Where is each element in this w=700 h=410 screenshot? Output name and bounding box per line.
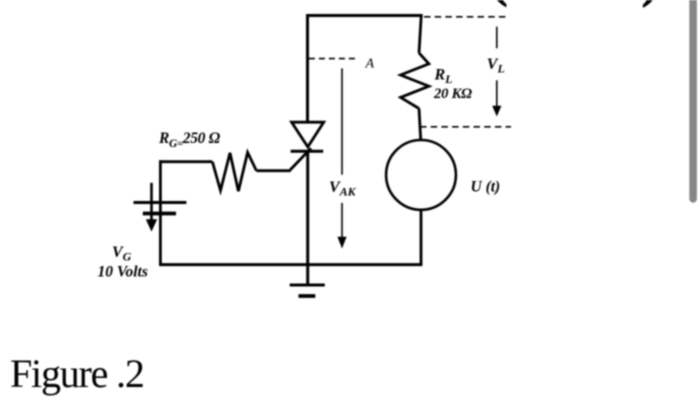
wire: bottom horizontal (159, 263, 422, 266)
resistor RG zigzag (212, 152, 256, 191)
wire: cathode vertical (306, 151, 309, 264)
source U(t) circle (386, 140, 456, 210)
node A dashed line (309, 58, 358, 60)
wire: top horizontal (306, 14, 423, 17)
VAK arrow line upper (341, 68, 343, 174)
svg-text:Figure .2: Figure .2 (10, 351, 144, 396)
VL arrowhead (492, 106, 501, 117)
battery arrow shaft (150, 183, 153, 221)
dashed line mid right (420, 126, 511, 128)
wire: RL to source circle (419, 109, 421, 142)
thyristor triangle (292, 122, 324, 147)
svg-text:U (t): U (t) (471, 179, 501, 196)
ground short bar (299, 294, 316, 298)
VL arrow line upper (496, 27, 498, 49)
scrollbar thumb (689, 0, 697, 203)
wire: battery to RG (159, 160, 212, 163)
battery arrowhead (146, 219, 157, 231)
svg-text:20 KΩ: 20 KΩ (433, 86, 472, 102)
thyristor gate diagonal (290, 148, 311, 170)
svg-text:A: A (365, 57, 375, 72)
svg-text:10 Volts: 10 Volts (98, 264, 148, 281)
wire: left vertical (battery branch) (159, 160, 162, 264)
wire: gate horizontal (256, 169, 290, 172)
wire: circle bottom to bottom wire (420, 209, 423, 265)
dashed line top right (424, 16, 507, 18)
battery short plate (143, 212, 176, 216)
VAK arrow line lower (341, 203, 343, 238)
svg-text:): ) (641, 0, 660, 9)
wire: top-right drop to RL (419, 14, 421, 53)
ground long bar (290, 284, 325, 287)
svg-text:(: ( (489, 0, 508, 8)
VAK arrowhead (337, 237, 346, 249)
VL arrow line lower (496, 80, 498, 107)
resistor RL zigzag (401, 53, 429, 109)
wire: anode vertical (306, 14, 309, 122)
thyristor cathode bar (291, 150, 324, 153)
ground stub (306, 265, 309, 285)
battery long plate (134, 201, 187, 204)
